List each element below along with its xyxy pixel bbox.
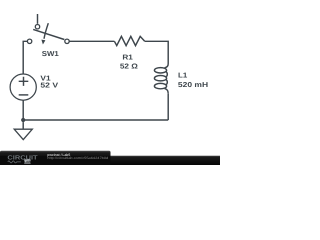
junction dot — [21, 118, 25, 122]
svg-text:R1: R1 — [122, 54, 133, 62]
svg-text:http://circuitlab.com/c55a6424: http://circuitlab.com/c55a64247b8d — [47, 156, 108, 160]
switch SW1 common terminal — [65, 39, 69, 43]
wire bottom rail — [23, 119, 168, 121]
switch SW1 left throw terminal — [27, 39, 31, 43]
wire resistor to corner and down — [145, 41, 169, 63]
svg-text:52 V: 52 V — [40, 82, 58, 90]
svg-text:SW1: SW1 — [42, 50, 59, 58]
inductor L1 — [165, 64, 169, 68]
svg-text:52 Ω: 52 Ω — [120, 62, 138, 70]
svg-text:CIRCUIT: CIRCUIT — [7, 155, 38, 162]
switch SW1 top throw terminal — [35, 25, 39, 29]
wire V1 to junction — [22, 100, 24, 120]
watermark box — [0, 151, 111, 165]
wire common to resistor — [69, 40, 114, 42]
watermark bar — [0, 156, 220, 165]
switch SW1 arm — [33, 29, 64, 39]
wire left throw to V1 — [23, 41, 27, 74]
resistor R1 — [114, 36, 144, 45]
svg-text:520 mH: 520 mH — [178, 81, 208, 89]
svg-text:L1: L1 — [178, 72, 187, 80]
ground — [22, 122, 24, 129]
wire inductor to bottom rail — [167, 94, 169, 120]
voltage source V1 — [10, 74, 36, 100]
switch SW1 actuation arrow — [44, 23, 48, 39]
svg-text:LAB: LAB — [24, 160, 31, 164]
wire switch top stub — [37, 14, 39, 24]
CircuitLab logo — [7, 155, 38, 164]
